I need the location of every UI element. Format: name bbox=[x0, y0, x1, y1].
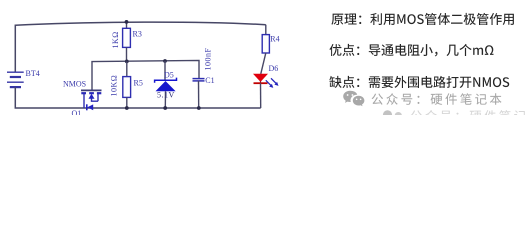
capacitor C1 bbox=[193, 47, 215, 108]
svg-text:BT4: BT4 bbox=[26, 69, 40, 78]
battery BT4 bbox=[7, 69, 40, 87]
text annotation line 2 bbox=[329, 44, 493, 57]
svg-text:10KΩ: 10KΩ bbox=[109, 75, 118, 97]
node C1 bottom junction bbox=[197, 106, 201, 110]
node R5 bottom junction bbox=[125, 106, 129, 110]
svg-text:1KΩ: 1KΩ bbox=[111, 31, 120, 48]
wire top rail bbox=[15, 22, 265, 72]
wire gate net bbox=[92, 60, 199, 90]
resistor R5 bbox=[109, 61, 143, 108]
diode D5 zener bbox=[155, 61, 177, 108]
resistor R4 bbox=[261, 25, 280, 74]
svg-text:R3: R3 bbox=[133, 30, 142, 39]
svg-text:D5: D5 bbox=[164, 71, 174, 80]
watermark second row partial bbox=[383, 110, 526, 122]
svg-text:R4: R4 bbox=[270, 35, 279, 44]
transistor Q1 NMOS bbox=[63, 79, 102, 118]
svg-text:C1: C1 bbox=[205, 76, 214, 85]
node R3 top junction bbox=[125, 20, 129, 24]
node divider junction bbox=[125, 60, 129, 64]
node D5 tap junction bbox=[163, 59, 167, 63]
text annotation line 1 bbox=[331, 13, 514, 25]
resistor R3 bbox=[111, 22, 142, 62]
wire bottom rail bbox=[15, 87, 260, 108]
svg-text:100nF: 100nF bbox=[203, 47, 212, 70]
svg-text:NMOS: NMOS bbox=[63, 79, 86, 88]
watermark text bbox=[372, 93, 502, 105]
watermark wechat icon bbox=[343, 91, 364, 106]
node D5 bottom junction bbox=[163, 106, 167, 110]
svg-text:5.1V: 5.1V bbox=[157, 91, 175, 100]
svg-text:Q1: Q1 bbox=[72, 109, 82, 115]
diode D6 LED bbox=[253, 64, 279, 108]
svg-text:R5: R5 bbox=[134, 79, 143, 88]
svg-text:D6: D6 bbox=[269, 64, 279, 73]
text annotation line 3 bbox=[329, 76, 509, 88]
